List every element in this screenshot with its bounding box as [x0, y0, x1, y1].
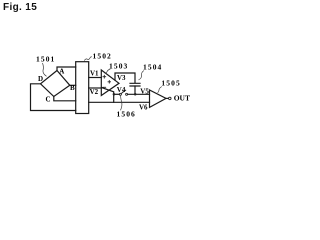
wire node A to box [57, 67, 76, 71]
output stub to terminal [166, 97, 168, 99]
wire V1 [89, 77, 102, 79]
wire V2 [89, 87, 102, 89]
leader line 1504 [139, 71, 145, 81]
wire switch to V5 [128, 93, 150, 95]
svg-text:1505: 1505 [161, 79, 180, 88]
feedback wire diagonal from op-amp to V4 node [102, 88, 114, 103]
bottom rail V6 [89, 101, 150, 103]
junction dot V4 node [113, 93, 116, 96]
leader line 1506 [121, 96, 122, 111]
capacitor C1504 bottom lead [134, 86, 136, 94]
bridge 1501 diamond [41, 71, 70, 97]
switch 1506 blade [121, 90, 126, 93]
capacitor C1504 plates [130, 83, 140, 86]
svg-text:V2: V2 [90, 88, 99, 96]
svg-text:A: A [59, 68, 64, 76]
junction dot capacitor/V5 wire [113, 93, 137, 96]
svg-text:1503: 1503 [109, 61, 128, 70]
leader line 1502 [84, 57, 92, 61]
leader line 1505 [158, 87, 162, 93]
svg-text:1502: 1502 [93, 52, 112, 61]
leader line 1503 [105, 69, 111, 74]
svg-text:1501: 1501 [36, 54, 55, 63]
svg-text:D: D [38, 75, 43, 83]
svg-text:OUT: OUT [174, 94, 190, 103]
op-amp 1503 plus input mark [103, 75, 112, 87]
svg-text:V4: V4 [117, 86, 126, 94]
leader line 1501 [43, 57, 162, 111]
wire node C to box [54, 97, 76, 101]
svg-text:1504: 1504 [143, 62, 162, 71]
wire V3 output up and over to capacitor [115, 73, 135, 83]
svg-text:V6: V6 [139, 104, 148, 112]
buffer amp U1505 triangle [150, 90, 167, 107]
svg-text:B: B [70, 84, 75, 92]
wire node B to box [70, 84, 76, 86]
op-amp 1503 minus input mark [103, 86, 107, 88]
svg-text:C: C [46, 95, 51, 103]
svg-text:V1: V1 [90, 69, 99, 77]
svg-text:V3: V3 [117, 74, 126, 82]
op-amp 1503 output polarity plus mark [108, 80, 111, 83]
switch 1506 contact circles [119, 93, 171, 99]
svg-text:1506: 1506 [117, 109, 136, 118]
output terminal circle [169, 97, 172, 100]
wire node D to box [31, 84, 76, 111]
op-amp U1503 triangle [101, 70, 119, 96]
wire V4 to switch [114, 93, 120, 95]
switching box 1502 [76, 62, 89, 114]
svg-text:V5: V5 [140, 87, 149, 95]
